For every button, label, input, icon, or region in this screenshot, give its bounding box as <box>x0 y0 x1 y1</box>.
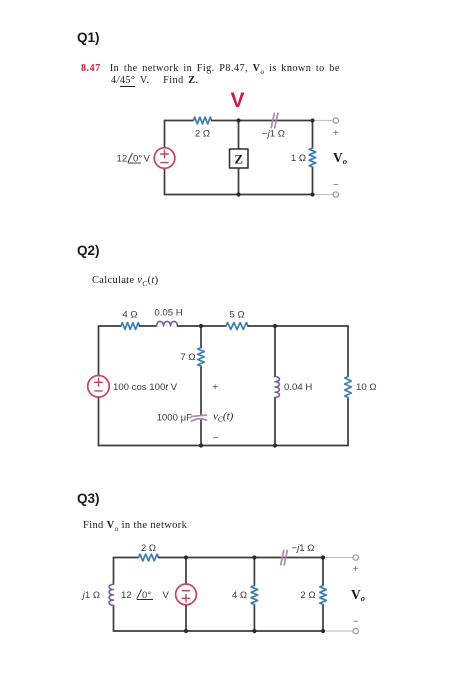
caption Calculate vC(t) <box>92 275 158 286</box>
label 12/0 V Q1 <box>117 153 151 165</box>
node bottom-middle Q1 <box>236 192 240 196</box>
inductor j1ohm Q3 <box>109 584 113 605</box>
wire bottom rail Q2 <box>99 445 349 447</box>
problem statement 8.47 <box>81 63 451 86</box>
wire middle branch Q1 <box>238 121 240 195</box>
wire top rail Q3 right <box>159 557 324 559</box>
source 12/0 V Q3 <box>176 584 197 605</box>
wire to output terminals Q3 <box>326 558 353 632</box>
wire left branch Q2 <box>98 326 100 446</box>
resistor 4ohm Q3 <box>251 586 258 605</box>
wire top rail Q1 right of resistor <box>212 120 313 122</box>
svg-text:Vo: Vo <box>351 587 365 603</box>
wire top rail Q3 left <box>114 557 139 559</box>
node top A Q2 <box>199 324 203 328</box>
wire left branch Q1 <box>164 121 166 195</box>
capacitor -j1ohm Q3 <box>281 550 288 565</box>
node V dot Q1 <box>236 118 240 122</box>
node top right Q3 <box>321 555 325 559</box>
capacitor 1000uF Q2 <box>191 415 206 421</box>
inductor 0.05H Q2 <box>157 321 178 326</box>
resistor 7ohm Q2 <box>198 348 205 366</box>
resistor 10ohm Q2 <box>345 377 352 398</box>
wire 7ohm branch Q2 <box>200 326 202 446</box>
heading Q1 <box>77 30 100 45</box>
node top B Q2 <box>273 324 277 328</box>
wire right branch Q2 <box>347 326 349 446</box>
resistor 1ohm Q1 <box>309 148 316 167</box>
impedance box Z Q1 <box>230 149 249 168</box>
wire right branch Q1 <box>312 121 314 195</box>
wire bottom rail Q1 <box>165 194 313 196</box>
wire top rail Q1 <box>165 120 194 122</box>
terminal bottom Q3 <box>353 628 358 633</box>
heading Q2 <box>77 243 100 258</box>
source 100cos100t Q2 <box>88 376 110 398</box>
wire top rail Q2 right <box>248 325 348 327</box>
node top-right Q1 <box>310 118 314 122</box>
wire left branch Q3 <box>113 558 115 632</box>
svg-text:4 Ω: 4 Ω <box>232 590 247 601</box>
terminal top Q3 <box>353 555 358 560</box>
wire 4ohm branch Q3 <box>253 558 255 632</box>
node bottom B Q2 <box>273 443 277 447</box>
caption Find Vo <box>83 520 187 531</box>
wire top rail Q2 <box>140 325 157 327</box>
svg-text:2 Ω: 2 Ω <box>300 590 315 601</box>
resistor 2ohm Q3 top <box>139 554 159 561</box>
label 12/0 V Q3 <box>121 589 170 601</box>
node top 4ohm Q3 <box>252 555 256 559</box>
svg-text:2 Ω: 2 Ω <box>141 543 156 554</box>
node bottom source Q3 <box>184 629 188 633</box>
node bottom right Q3 <box>321 629 325 633</box>
wire bottom rail Q3 <box>114 630 324 632</box>
resistor 4ohm Q2 <box>121 323 139 330</box>
wire right branch Q3 <box>322 558 324 632</box>
inductor 0.04H Q2 <box>275 377 279 398</box>
svg-text:V: V <box>163 590 170 601</box>
wire top rail Q2 left <box>99 325 122 327</box>
node bottom-right Q1 <box>310 192 314 196</box>
svg-text:−j1 Ω: −j1 Ω <box>292 543 315 554</box>
terminal bottom Q1 <box>333 192 338 197</box>
svg-text:+: + <box>353 564 359 575</box>
wire top rail Q2 mid <box>178 325 227 327</box>
terminal top Q1 <box>333 118 338 123</box>
capacitor -j1ohm Q1 <box>271 113 278 128</box>
node top source Q3 <box>184 555 188 559</box>
svg-text:j1 Ω: j1 Ω <box>81 590 100 601</box>
wire 0.04H branch Q2 <box>274 326 276 446</box>
svg-text:−: − <box>353 617 359 628</box>
source 12/0 V Q1 <box>154 148 175 169</box>
node bottom A Q2 <box>199 443 203 447</box>
wire to output terminals Q1 <box>315 121 333 195</box>
svg-text:12: 12 <box>121 590 132 601</box>
node bottom 4ohm Q3 <box>252 629 256 633</box>
resistor 5ohm Q2 <box>226 323 248 330</box>
resistor 2ohm Q3 right <box>320 586 327 605</box>
heading Q3 <box>77 491 100 506</box>
resistor 2ohm Q1 <box>193 117 211 124</box>
wire source branch Q3 <box>185 558 187 632</box>
